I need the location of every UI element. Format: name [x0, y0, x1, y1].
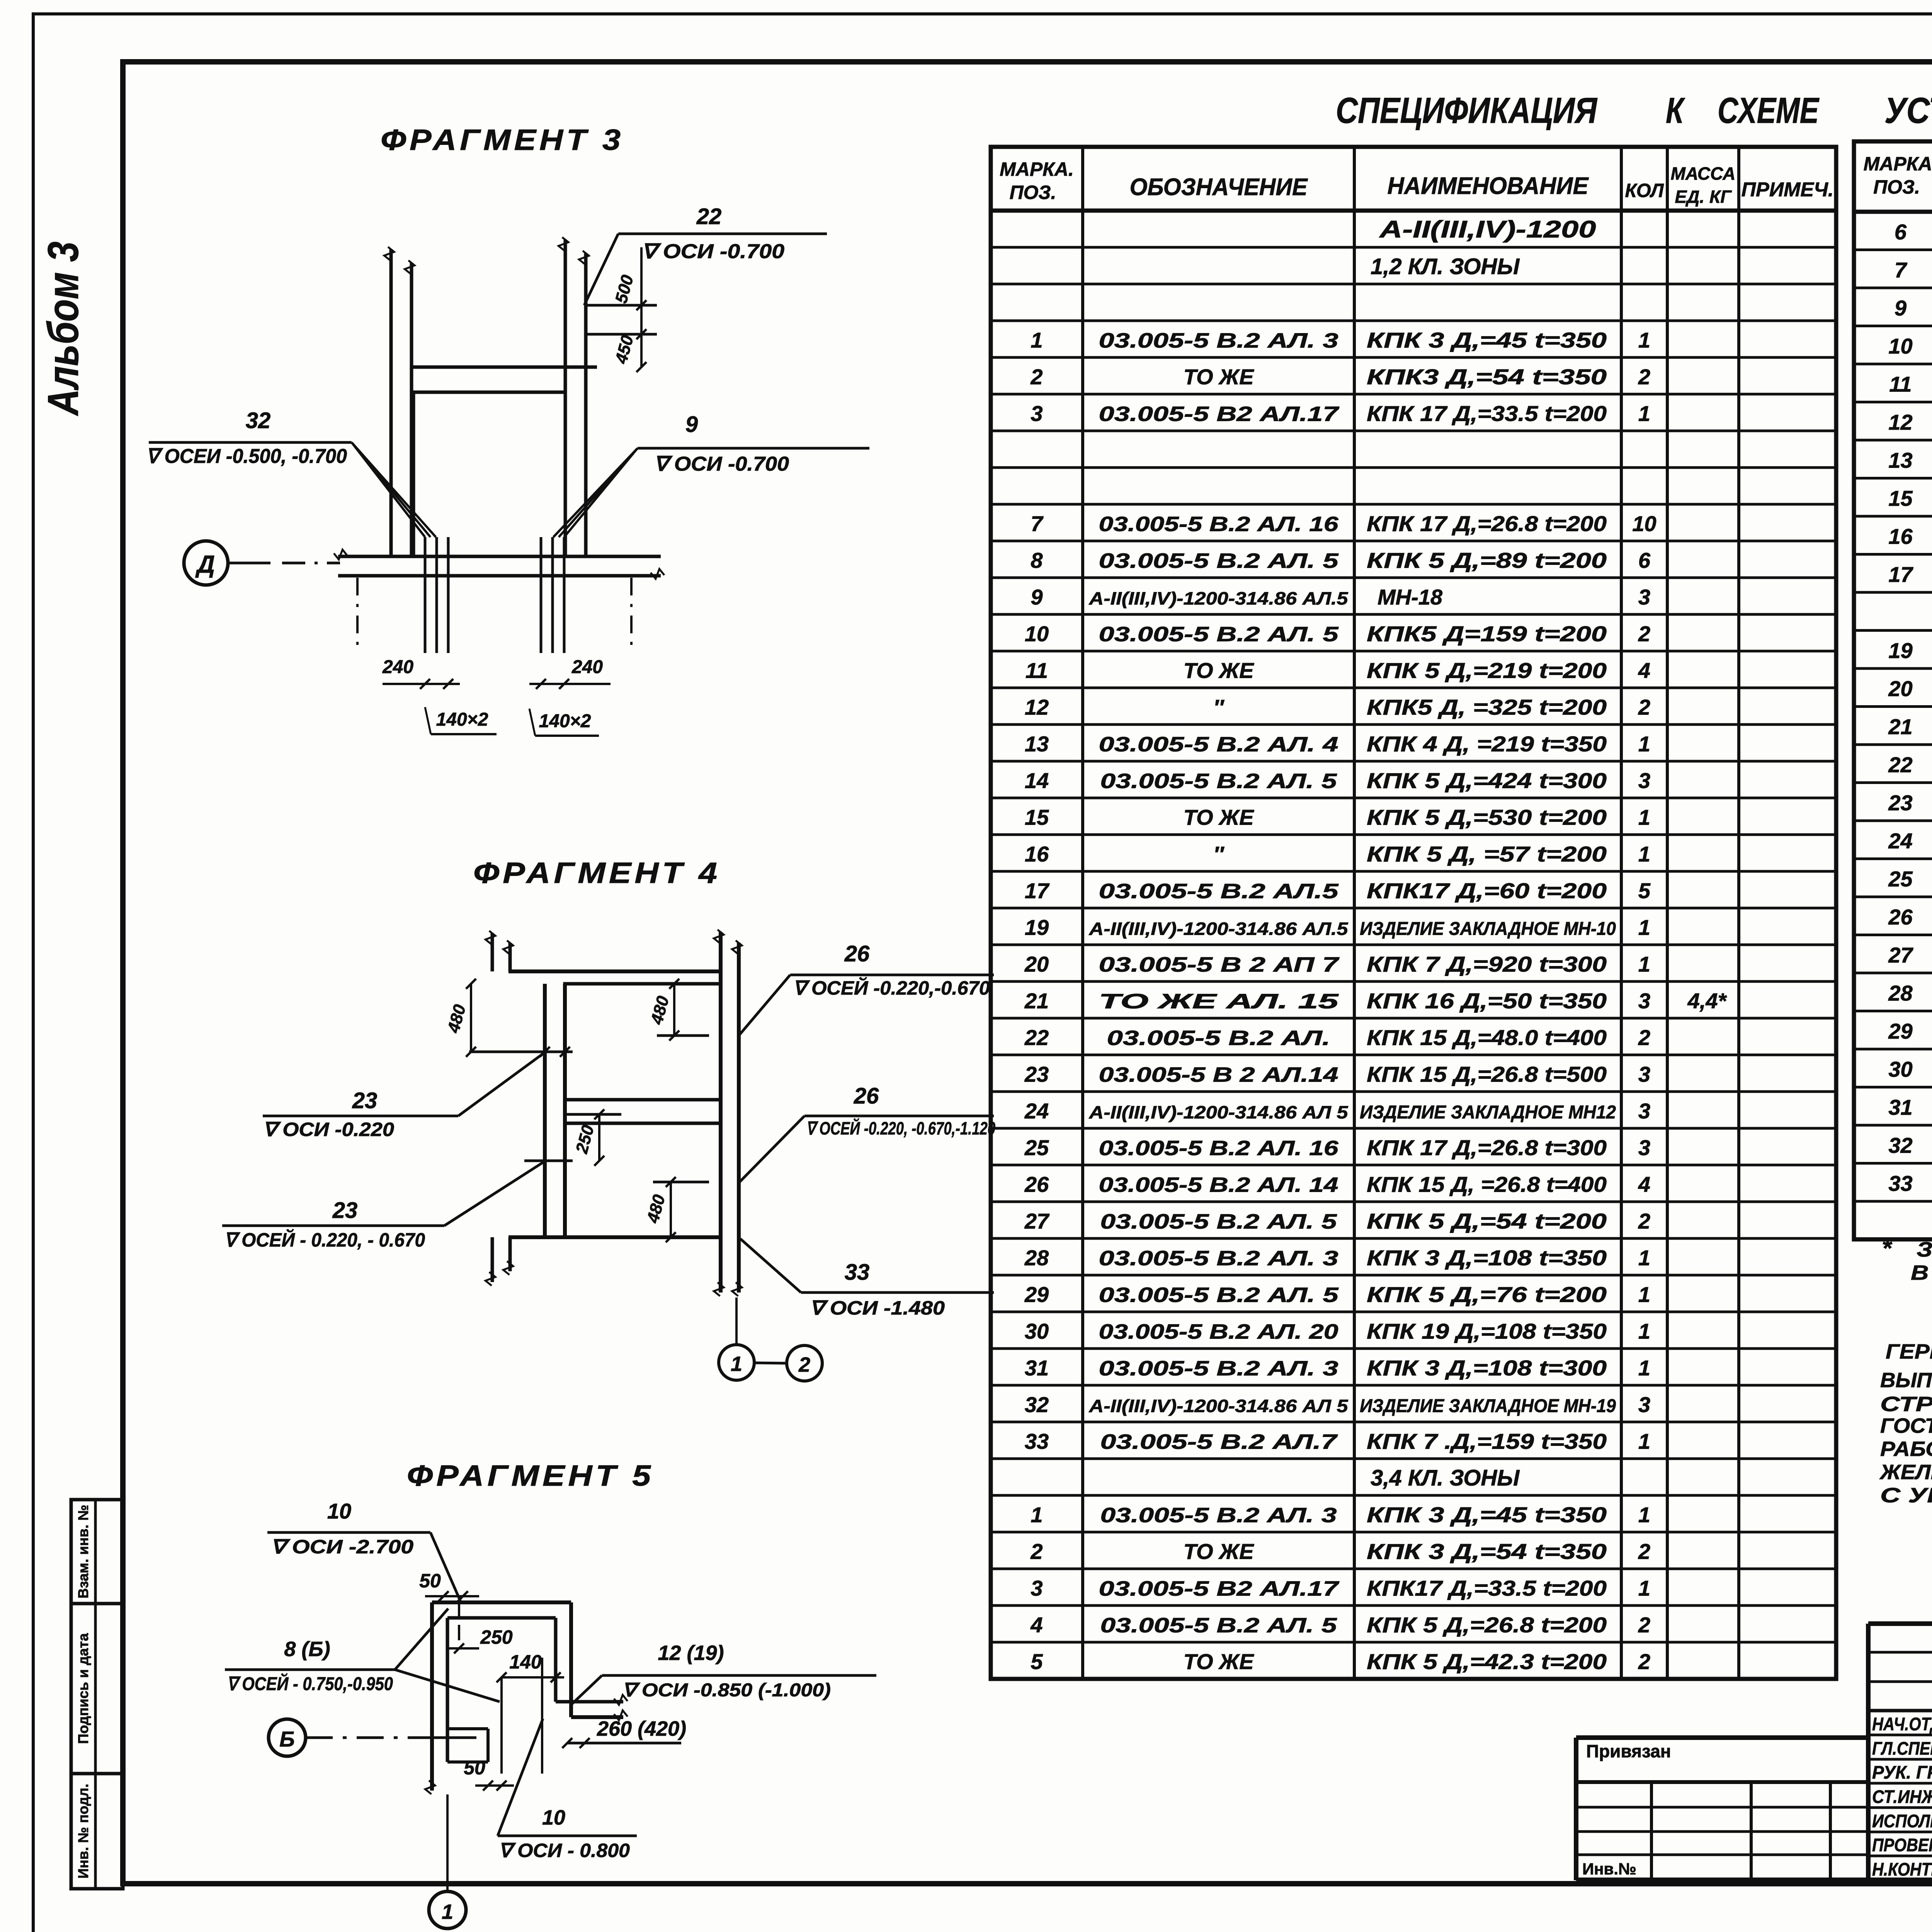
svg-text:КПК 16 Д,=50 t=350: КПК 16 Д,=50 t=350: [1367, 989, 1607, 1013]
svg-text:14: 14: [1025, 769, 1049, 793]
svg-text:1: 1: [1031, 328, 1043, 352]
svg-text:26: 26: [854, 1083, 879, 1109]
svg-text:2: 2: [1638, 695, 1650, 719]
svg-text:33: 33: [1025, 1429, 1049, 1454]
svg-text:13: 13: [1025, 732, 1049, 756]
svg-text:Д: Д: [195, 550, 215, 578]
svg-text:1: 1: [1638, 952, 1650, 976]
svg-text:250: 250: [480, 1626, 513, 1648]
svg-text:50: 50: [419, 1570, 441, 1592]
svg-text:КПК 3 Д,=108 t=350: КПК 3 Д,=108 t=350: [1367, 1246, 1607, 1270]
svg-text:ВЫПОЛНЯТЬ ПРИ ПОМОЩИ: ВЫПОЛНЯТЬ ПРИ ПОМОЩИ ПОЛИИЗОБУТИЛЕНОВОЙ: [1880, 1368, 1932, 1392]
svg-text:3: 3: [1638, 1099, 1650, 1123]
svg-text:140: 140: [509, 1651, 542, 1673]
svg-text:КПК 5 Д,=76 t=200: КПК 5 Д,=76 t=200: [1367, 1282, 1607, 1307]
svg-text:МН-18: МН-18: [1378, 585, 1443, 609]
svg-text:∇ ОСИ -0.850 (-1.000): ∇ ОСИ -0.850 (-1.000): [622, 1680, 831, 1701]
svg-text:29: 29: [1024, 1282, 1049, 1307]
svg-text:32: 32: [1025, 1393, 1049, 1417]
svg-text:10: 10: [1632, 512, 1656, 536]
svg-text:В СБОРНОЙ ПАНЕЛИ.: В СБОРНОЙ ПАНЕЛИ.: [1911, 1260, 1932, 1284]
svg-text:25: 25: [1024, 1136, 1049, 1160]
svg-text:1,2 КЛ. ЗОНЫ: 1,2 КЛ. ЗОНЫ: [1371, 254, 1520, 279]
svg-text:КПК 3 Д,=108 t=300: КПК 3 Д,=108 t=300: [1367, 1356, 1607, 1380]
svg-text:МАРКА.: МАРКА.: [1000, 158, 1074, 180]
svg-text:3: 3: [1638, 1136, 1650, 1160]
svg-text:17: 17: [1888, 562, 1913, 587]
svg-text:10: 10: [1025, 622, 1049, 646]
svg-text:1: 1: [1638, 1503, 1650, 1527]
svg-text:Инв. № подл.: Инв. № подл.: [75, 1784, 91, 1879]
svg-text:Альбом 3: Альбом 3: [39, 241, 87, 417]
svg-text:32: 32: [246, 408, 271, 433]
svg-text:03.005-5 В.2 АЛ.: 03.005-5 В.2 АЛ.: [1107, 1027, 1330, 1050]
svg-text:″: ″: [1213, 842, 1225, 866]
svg-text:7: 7: [1895, 258, 1908, 282]
svg-text:ПОЗ.: ПОЗ.: [1010, 182, 1056, 203]
svg-text:ОБОЗНАЧЕНИЕ: ОБОЗНАЧЕНИЕ: [1130, 174, 1308, 201]
svg-text:ТО ЖЕ АЛ. 15: ТО ЖЕ АЛ. 15: [1099, 990, 1339, 1013]
svg-text:КПК 7 .Д,=159 t=350: КПК 7 .Д,=159 t=350: [1367, 1429, 1607, 1454]
svg-text:03.005-5 В.2 АЛ. 4: 03.005-5 В.2 АЛ. 4: [1099, 733, 1338, 756]
svg-text:03.005-5 В.2 АЛ. 5: 03.005-5 В.2 АЛ. 5: [1100, 770, 1337, 793]
svg-text:ИЗДЕЛИЕ ЗАКЛАДНОЕ МН12: ИЗДЕЛИЕ ЗАКЛАДНОЕ МН12: [1360, 1102, 1616, 1123]
svg-text:15: 15: [1025, 805, 1049, 830]
svg-text:27: 27: [1888, 943, 1913, 967]
svg-text:1: 1: [1638, 328, 1650, 352]
svg-text:КПК 15 Д, =26.8 t=400: КПК 15 Д, =26.8 t=400: [1367, 1172, 1607, 1197]
svg-text:2: 2: [1638, 1613, 1650, 1637]
svg-text:2: 2: [1030, 1539, 1043, 1564]
svg-text:480: 480: [643, 1192, 669, 1225]
svg-text:МАРКА.: МАРКА.: [1864, 153, 1932, 175]
svg-text:ФРАГМЕНТ 5: ФРАГМЕНТ 5: [407, 1459, 654, 1492]
svg-text:2: 2: [1638, 622, 1650, 646]
svg-text:3: 3: [1031, 401, 1043, 426]
svg-text:ТО ЖЕ: ТО ЖЕ: [1184, 1539, 1255, 1564]
svg-text:4: 4: [1638, 1172, 1650, 1197]
svg-text:21: 21: [1024, 989, 1049, 1013]
svg-text:03.005-5 В 2 АП 7: 03.005-5 В 2 АП 7: [1099, 953, 1340, 976]
svg-text:ФРАГМЕНТ 4: ФРАГМЕНТ 4: [473, 857, 721, 889]
svg-text:6: 6: [1638, 548, 1651, 573]
svg-text:16: 16: [1025, 842, 1049, 866]
svg-text:03.005-5 В.2 АЛ. 5: 03.005-5 В.2 АЛ. 5: [1099, 1284, 1339, 1307]
svg-text:К: К: [1666, 90, 1685, 131]
svg-text:РАБОТЫ ПО ГЕРМЕТИЗАЦИИ И: РАБОТЫ ПО ГЕРМЕТИЗАЦИИ И ЗАМОНОЛИЧИВАНИЮ…: [1880, 1437, 1932, 1461]
svg-text:ГЕРМЕТИЗАЦИЮ СТЫКОВ ЖЕЛ: ГЕРМЕТИЗАЦИЮ СТЫКОВ ЖЕЛЕЗОБЕТОННЫХ КОНСТ…: [1886, 1339, 1932, 1363]
svg-text:260 (420): 260 (420): [597, 1717, 686, 1740]
svg-text:ГЛ.СПЕЦ: ГЛ.СПЕЦ: [1872, 1738, 1932, 1759]
svg-text:ГОСТ 5.1011-71) И ПЛЕНОЧН: ГОСТ 5.1011-71) И ПЛЕНОЧНОГО ПОЛИЭТИЛЕНА…: [1880, 1414, 1932, 1437]
svg-text:240: 240: [571, 657, 603, 677]
svg-text:1: 1: [1638, 1356, 1650, 1380]
svg-text:3: 3: [1638, 769, 1650, 793]
svg-text:12 (19): 12 (19): [658, 1641, 724, 1665]
svg-text:ТО ЖЕ: ТО ЖЕ: [1184, 805, 1255, 830]
svg-text:Б: Б: [279, 1727, 295, 1751]
svg-text:ТО ЖЕ: ТО ЖЕ: [1184, 365, 1255, 389]
svg-text:2: 2: [1638, 1539, 1650, 1564]
svg-text:140×2: 140×2: [436, 709, 488, 730]
svg-text:СТ.ИНЖ.: СТ.ИНЖ.: [1872, 1786, 1932, 1807]
svg-text:1: 1: [1638, 732, 1650, 756]
svg-text:8: 8: [1031, 548, 1043, 573]
svg-text:9: 9: [685, 412, 698, 437]
svg-text:23: 23: [1024, 1062, 1049, 1087]
svg-text:9: 9: [1031, 585, 1043, 609]
svg-text:3: 3: [1638, 1393, 1650, 1417]
svg-text:03.005-5 В.2 АЛ. 5: 03.005-5 В.2 АЛ. 5: [1099, 623, 1339, 646]
svg-text:ЗАКЛАДНАЯ ДЕТАЛЬ С ПАТРУБ: ЗАКЛАДНАЯ ДЕТАЛЬ С ПАТРУБКОМ d=50 ЗАЛОЖЕ…: [1917, 1238, 1932, 1261]
svg-text:25: 25: [1888, 867, 1913, 891]
svg-text:КПК 5 Д, =57 t=200: КПК 5 Д, =57 t=200: [1367, 842, 1607, 866]
svg-text:ПРИМЕЧ.: ПРИМЕЧ.: [1742, 179, 1834, 201]
svg-text:КПК 5 Д,=54 t=200: КПК 5 Д,=54 t=200: [1367, 1209, 1607, 1233]
svg-text:КПК 7 Д,=920 t=300: КПК 7 Д,=920 t=300: [1367, 952, 1607, 976]
svg-text:28: 28: [1888, 981, 1913, 1005]
svg-text:500: 500: [612, 273, 637, 305]
svg-text:03.005-5 В.2 АЛ. 16: 03.005-5 В.2 АЛ. 16: [1099, 1137, 1339, 1160]
svg-text:∇ ОСЕЙ - 0.750,-0.950: ∇ ОСЕЙ - 0.750,-0.950: [227, 1673, 393, 1694]
svg-text:9: 9: [1895, 296, 1906, 320]
svg-text:6: 6: [1895, 219, 1907, 244]
svg-text:50: 50: [464, 1757, 485, 1779]
svg-text:КПК17 Д,=33.5 t=200: КПК17 Д,=33.5 t=200: [1367, 1576, 1607, 1600]
svg-text:12: 12: [1025, 695, 1049, 719]
svg-text:03.005-5 В 2 АЛ.14: 03.005-5 В 2 АЛ.14: [1099, 1063, 1338, 1087]
svg-text:250: 250: [572, 1123, 598, 1156]
svg-text:2: 2: [798, 1353, 810, 1376]
svg-text:10: 10: [542, 1806, 565, 1829]
svg-text:А-II(III,IV)-1200-314.86 АЛ: А-II(III,IV)-1200-314.86 АЛ 5: [1088, 1102, 1349, 1122]
svg-text:19: 19: [1888, 638, 1912, 663]
svg-text:4,4*: 4,4*: [1687, 989, 1727, 1013]
svg-text:26: 26: [1888, 905, 1913, 929]
svg-text:2: 2: [1030, 365, 1043, 389]
svg-text:КПК 5 Д,=424 t=300: КПК 5 Д,=424 t=300: [1367, 769, 1607, 793]
svg-text:КПК 3 Д,=45 t=350: КПК 3 Д,=45 t=350: [1367, 1503, 1607, 1527]
svg-text:КПК 3 Д,=45 t=350: КПК 3 Д,=45 t=350: [1367, 328, 1607, 352]
svg-text:33: 33: [1888, 1171, 1912, 1196]
svg-text:10: 10: [327, 1499, 351, 1523]
svg-text:3: 3: [1638, 989, 1650, 1013]
svg-text:Инв.№: Инв.№: [1582, 1860, 1636, 1878]
svg-text:ИСПОЛН: ИСПОЛН: [1872, 1811, 1932, 1831]
svg-text:24: 24: [1888, 828, 1912, 853]
svg-text:Привязан: Привязан: [1586, 1741, 1671, 1761]
svg-text:УСТАНОВКИ: УСТАНОВКИ: [1884, 90, 1932, 131]
svg-text:22: 22: [1888, 752, 1912, 777]
svg-text:12: 12: [1888, 410, 1912, 434]
svg-text:03.005-5 В.2 АЛ. 3: 03.005-5 В.2 АЛ. 3: [1099, 1247, 1338, 1270]
svg-text:КПК 5 Д,=89 t=200: КПК 5 Д,=89 t=200: [1367, 548, 1607, 573]
svg-text:22: 22: [1024, 1026, 1049, 1050]
svg-text:03.005-5 В.2 АЛ. 3: 03.005-5 В.2 АЛ. 3: [1099, 1357, 1338, 1380]
svg-text:23: 23: [352, 1088, 378, 1113]
svg-text:ТО ЖЕ: ТО ЖЕ: [1184, 658, 1255, 683]
svg-text:∇ ОСИ - 0.800: ∇ ОСИ - 0.800: [498, 1840, 630, 1861]
svg-text:26: 26: [844, 941, 870, 966]
svg-text:∇ ОСЕЙ -0.220,-0.670: ∇ ОСЕЙ -0.220,-0.670: [793, 977, 990, 999]
svg-text:30: 30: [1888, 1057, 1912, 1081]
svg-text:10: 10: [1888, 334, 1912, 358]
svg-text:ПРОВЕР.: ПРОВЕР.: [1872, 1835, 1932, 1855]
svg-text:03.005-5 В.2 АЛ.5: 03.005-5 В.2 АЛ.5: [1099, 880, 1339, 903]
svg-text:450: 450: [612, 333, 638, 366]
svg-text:КПК 5 Д,=42.3 t=200: КПК 5 Д,=42.3 t=200: [1367, 1650, 1607, 1674]
svg-text:03.005-5 В.2 АЛ. 3: 03.005-5 В.2 АЛ. 3: [1100, 1504, 1337, 1527]
svg-text:3: 3: [1638, 585, 1650, 609]
svg-text:СПЕЦИФИКАЦИЯ: СПЕЦИФИКАЦИЯ: [1336, 90, 1598, 131]
svg-text:КПК5 Д, =325 t=200: КПК5 Д, =325 t=200: [1367, 695, 1607, 719]
svg-text:03.005-5 В.2 АЛ. 16: 03.005-5 В.2 АЛ. 16: [1099, 513, 1339, 536]
svg-text:∇ ОСИ -1.480: ∇ ОСИ -1.480: [810, 1297, 945, 1319]
svg-text:22: 22: [696, 204, 722, 229]
svg-text:1: 1: [1638, 401, 1650, 426]
svg-text:3: 3: [1638, 1062, 1650, 1087]
svg-text:ФРАГМЕНТ 3: ФРАГМЕНТ 3: [381, 124, 624, 156]
svg-text:20: 20: [1024, 952, 1049, 976]
svg-text:1: 1: [1031, 1503, 1043, 1527]
svg-text:∇ ОСИ -0.700: ∇ ОСИ -0.700: [654, 453, 789, 475]
svg-text:11: 11: [1889, 372, 1912, 396]
svg-text:7: 7: [1031, 512, 1044, 536]
svg-text:15: 15: [1888, 486, 1913, 510]
svg-text:140×2: 140×2: [539, 711, 591, 731]
svg-text:5: 5: [1638, 879, 1651, 903]
svg-text:КПК 3 Д,=54 t=350: КПК 3 Д,=54 t=350: [1367, 1539, 1607, 1564]
svg-text:А-II(III,IV)-1200-314.86 АЛ.5: А-II(III,IV)-1200-314.86 АЛ.5: [1088, 919, 1349, 939]
svg-text:ИЗДЕЛИЕ ЗАКЛАДНОЕ МН-19: ИЗДЕЛИЕ ЗАКЛАДНОЕ МН-19: [1360, 1396, 1616, 1417]
svg-text:СТРОИТЕЛЬНОЙ МАСТИКИ УМ: СТРОИТЕЛЬНОЙ МАСТИКИ УМС-50 /ГОСТ 14791-…: [1880, 1392, 1932, 1416]
svg-text:1: 1: [442, 1900, 453, 1923]
svg-text:1: 1: [1638, 1282, 1650, 1307]
svg-text:1: 1: [1638, 1319, 1650, 1344]
svg-text:27: 27: [1024, 1209, 1050, 1233]
svg-text:03.005-5 В.2 АЛ. 5: 03.005-5 В.2 АЛ. 5: [1099, 549, 1339, 573]
svg-text:31: 31: [1025, 1356, 1049, 1380]
svg-text:КПК17 Д,=60 t=200: КПК17 Д,=60 t=200: [1367, 879, 1607, 903]
svg-text:240: 240: [382, 657, 413, 677]
svg-text:1: 1: [1638, 1576, 1650, 1600]
svg-text:03.005-5 В.2 АЛ. 20: 03.005-5 В.2 АЛ. 20: [1099, 1320, 1338, 1344]
svg-text:13: 13: [1888, 448, 1912, 472]
svg-text:2: 2: [1638, 1209, 1650, 1233]
svg-text:480: 480: [647, 994, 673, 1027]
svg-text:17: 17: [1025, 879, 1050, 903]
svg-text:С УКАЗАНИЯМИ СЕРИИ: С УКАЗАНИЯМИ СЕРИИ 03.005-3.: [1880, 1484, 1932, 1507]
svg-text:1: 1: [1638, 1246, 1650, 1270]
svg-text:ИЗДЕЛИЕ ЗАКЛАДНОЕ МН-10: ИЗДЕЛИЕ ЗАКЛАДНОЕ МН-10: [1360, 919, 1616, 939]
svg-text:1: 1: [1638, 842, 1650, 866]
svg-text:03.005-5 В.2 АЛ.7: 03.005-5 В.2 АЛ.7: [1100, 1430, 1338, 1454]
svg-text:*: *: [1882, 1234, 1893, 1262]
svg-text:11: 11: [1026, 658, 1048, 683]
svg-text:∇ ОСЕЙ - 0.220, - 0.670: ∇ ОСЕЙ - 0.220, - 0.670: [224, 1229, 425, 1251]
svg-text:КОЛ: КОЛ: [1625, 180, 1665, 201]
svg-text:2: 2: [1638, 1650, 1650, 1674]
svg-text:4: 4: [1030, 1613, 1043, 1637]
svg-text:16: 16: [1888, 524, 1913, 548]
svg-text:2: 2: [1638, 365, 1650, 389]
svg-text:КПК 17 Д,=26.8 t=200: КПК 17 Д,=26.8 t=200: [1367, 512, 1607, 536]
svg-text:∇ ОСЕЙ -0.220, -0.670,-1.120: ∇ ОСЕЙ -0.220, -0.670,-1.120: [806, 1118, 995, 1138]
svg-text:СХЕМЕ: СХЕМЕ: [1718, 90, 1820, 131]
svg-text:3,4 КЛ. ЗОНЫ: 3,4 КЛ. ЗОНЫ: [1371, 1466, 1520, 1491]
svg-text:КПК3 Д,=54 t=350: КПК3 Д,=54 t=350: [1367, 365, 1607, 389]
svg-text:∇ ОСИ -0.220: ∇ ОСИ -0.220: [263, 1119, 394, 1140]
svg-text:23: 23: [332, 1198, 358, 1223]
svg-text:33: 33: [845, 1260, 870, 1285]
svg-text:МАССА: МАССА: [1671, 163, 1736, 184]
svg-text:∇ ОСИ -0.700: ∇ ОСИ -0.700: [641, 240, 784, 263]
svg-text:ПОЗ.: ПОЗ.: [1873, 176, 1920, 198]
svg-text:КПК 5 Д,=26.8 t=200: КПК 5 Д,=26.8 t=200: [1367, 1613, 1607, 1637]
svg-text:28: 28: [1024, 1246, 1049, 1270]
svg-text:∇ ОСЕИ -0.500, -0.700: ∇ ОСЕИ -0.500, -0.700: [146, 445, 347, 468]
svg-text:21: 21: [1888, 714, 1912, 739]
svg-text:А-II(III,IV)-1200-314.86 АЛ: А-II(III,IV)-1200-314.86 АЛ 5: [1088, 1396, 1349, 1416]
svg-text:Н.КОНТР: Н.КОНТР: [1872, 1859, 1932, 1879]
svg-text:24: 24: [1024, 1099, 1049, 1123]
svg-text:НАИМЕНОВАНИЕ: НАИМЕНОВАНИЕ: [1388, 173, 1589, 199]
svg-text:32: 32: [1888, 1133, 1912, 1157]
svg-text:26: 26: [1024, 1172, 1049, 1197]
svg-text:1: 1: [1638, 915, 1650, 940]
svg-text:РУК. ГР.: РУК. ГР.: [1872, 1762, 1932, 1782]
svg-text:Взам. инв. №: Взам. инв. №: [75, 1505, 91, 1599]
svg-text:∇ ОСИ -2.700: ∇ ОСИ -2.700: [270, 1536, 413, 1558]
svg-text:КПК 15 Д,=48.0 t=400: КПК 15 Д,=48.0 t=400: [1367, 1026, 1607, 1050]
svg-text:2: 2: [1638, 1026, 1650, 1050]
svg-text:20: 20: [1888, 676, 1912, 701]
svg-text:03.005-5 В2 АЛ.17: 03.005-5 В2 АЛ.17: [1099, 1577, 1340, 1600]
svg-text:5: 5: [1031, 1650, 1043, 1674]
svg-text:29: 29: [1888, 1019, 1912, 1043]
svg-text:03.005-5 В.2 АЛ. 14: 03.005-5 В.2 АЛ. 14: [1099, 1173, 1338, 1197]
svg-text:03.005-5 В2 АЛ.17: 03.005-5 В2 АЛ.17: [1099, 403, 1340, 426]
svg-text:КПК 15 Д,=26.8 t=500: КПК 15 Д,=26.8 t=500: [1367, 1062, 1607, 1087]
svg-text:3: 3: [1031, 1576, 1043, 1600]
svg-text:23: 23: [1888, 791, 1912, 815]
svg-text:480: 480: [444, 1002, 470, 1035]
svg-text:КПК 17 Д,=26.8 t=300: КПК 17 Д,=26.8 t=300: [1367, 1136, 1607, 1160]
svg-text:1: 1: [731, 1352, 742, 1376]
svg-text:4: 4: [1638, 658, 1650, 683]
svg-text:″: ″: [1213, 695, 1225, 719]
svg-text:1: 1: [1638, 1429, 1650, 1454]
svg-text:КПК 5 Д,=219 t=200: КПК 5 Д,=219 t=200: [1367, 658, 1607, 683]
svg-text:19: 19: [1025, 915, 1049, 940]
svg-text:ТО ЖЕ: ТО ЖЕ: [1184, 1650, 1255, 1674]
svg-text:КПК 4 Д, =219 t=350: КПК 4 Д, =219 t=350: [1367, 732, 1607, 756]
svg-text:А-II(III,IV)-1200: А-II(III,IV)-1200: [1379, 216, 1596, 243]
svg-text:03.005-5 В.2 АЛ. 5: 03.005-5 В.2 АЛ. 5: [1100, 1210, 1337, 1233]
svg-text:КПК5 Д=159 t=200: КПК5 Д=159 t=200: [1367, 622, 1607, 646]
svg-text:КПК 19 Д,=108 t=350: КПК 19 Д,=108 t=350: [1367, 1319, 1607, 1344]
svg-text:ЕД. КГ: ЕД. КГ: [1675, 187, 1732, 207]
svg-text:Подпись и дата: Подпись и дата: [75, 1633, 91, 1744]
svg-text:1: 1: [1638, 805, 1650, 830]
svg-text:03.005-5 В.2 АЛ. 3: 03.005-5 В.2 АЛ. 3: [1099, 329, 1338, 352]
svg-text:НАЧ.ОТД: НАЧ.ОТД: [1872, 1714, 1932, 1734]
svg-text:30: 30: [1025, 1319, 1049, 1344]
svg-text:8 (Б): 8 (Б): [284, 1638, 330, 1661]
svg-text:03.005-5 В.2 АЛ. 5: 03.005-5 В.2 АЛ. 5: [1100, 1614, 1337, 1637]
svg-text:ЖЕЛЕЗОБЕТОННЫХ КОНСТРУКЦИЙ: ЖЕЛЕЗОБЕТОННЫХ КОНСТРУКЦИЙ ВЫПОЛНЯТЬ В С…: [1879, 1460, 1932, 1484]
svg-text:КПК 17 Д,=33.5 t=200: КПК 17 Д,=33.5 t=200: [1367, 401, 1607, 426]
svg-text:А-II(III,IV)-1200-314.86 АЛ.: А-II(III,IV)-1200-314.86 АЛ.5: [1088, 588, 1349, 609]
svg-text:31: 31: [1888, 1095, 1912, 1119]
svg-text:КПК 5 Д,=530 t=200: КПК 5 Д,=530 t=200: [1367, 805, 1607, 830]
